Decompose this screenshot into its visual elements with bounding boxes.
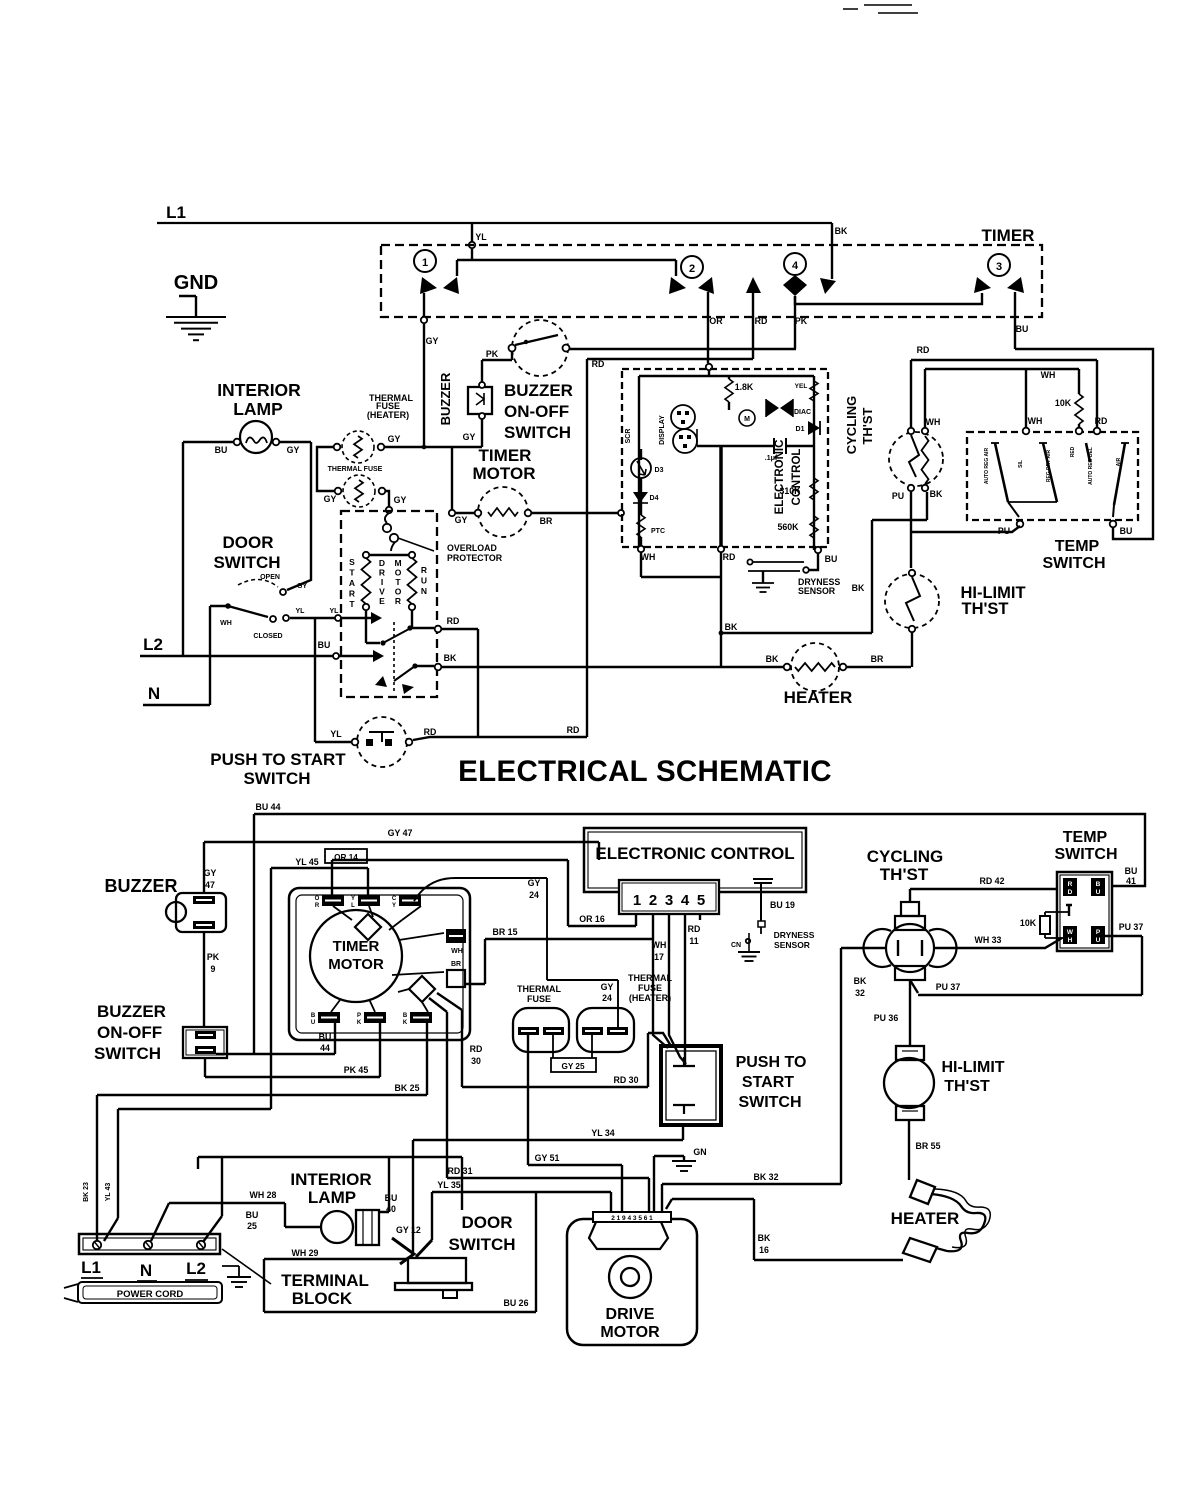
svg-text:MOTOR: MOTOR <box>473 464 536 483</box>
svg-text:O: O <box>315 896 320 902</box>
svg-text:K: K <box>357 1020 362 1026</box>
svg-text:BU 26: BU 26 <box>504 1298 529 1308</box>
svg-text:BK: BK <box>758 1233 771 1243</box>
svg-text:N: N <box>140 1261 152 1280</box>
svg-text:U: U <box>1096 889 1101 896</box>
svg-text:32: 32 <box>855 988 865 998</box>
svg-text:SWITCH: SWITCH <box>738 1094 801 1111</box>
svg-text:4: 4 <box>681 892 690 909</box>
svg-text:RD 42: RD 42 <box>980 876 1005 886</box>
svg-text:PU 37: PU 37 <box>936 982 961 992</box>
svg-text:R: R <box>395 596 401 606</box>
svg-text:PU 37: PU 37 <box>1119 922 1144 932</box>
svg-text:WH: WH <box>641 552 656 562</box>
svg-text:17: 17 <box>654 952 664 962</box>
svg-text:2: 2 <box>689 263 695 275</box>
svg-text:BU: BU <box>1125 866 1138 876</box>
svg-text:BK: BK <box>766 654 779 664</box>
svg-text:(HEATER): (HEATER) <box>367 410 409 420</box>
svg-text:CONTROL: CONTROL <box>791 449 803 506</box>
svg-text:FUSE: FUSE <box>638 983 662 993</box>
svg-text:BUZZER: BUZZER <box>97 1002 166 1021</box>
svg-text:BR 15: BR 15 <box>493 927 518 937</box>
svg-text:R: R <box>379 568 385 578</box>
svg-text:R: R <box>1068 881 1073 888</box>
svg-text:4: 4 <box>792 260 799 272</box>
svg-text:THERMAL FUSE: THERMAL FUSE <box>328 466 383 473</box>
svg-text:AUTO REG AIR: AUTO REG AIR <box>984 448 990 485</box>
svg-text:YL: YL <box>330 608 340 615</box>
svg-text:SWITCH: SWITCH <box>243 769 310 788</box>
svg-text:DRIVE: DRIVE <box>606 1306 655 1323</box>
svg-text:TIMER: TIMER <box>982 226 1035 245</box>
svg-text:GY: GY <box>388 434 401 444</box>
svg-text:A: A <box>349 578 355 588</box>
svg-text:SIL: SIL <box>1018 460 1024 468</box>
svg-text:P: P <box>357 1013 361 1019</box>
svg-text:P: P <box>1096 929 1101 936</box>
svg-text:L: L <box>351 903 355 909</box>
svg-text:HEATER: HEATER <box>891 1209 960 1228</box>
svg-text:D: D <box>379 558 385 568</box>
svg-text:TIMER: TIMER <box>333 938 380 955</box>
svg-text:BU: BU <box>246 1210 259 1220</box>
svg-text:TH'ST: TH'ST <box>880 865 929 884</box>
svg-text:PK: PK <box>207 952 220 962</box>
svg-text:BR: BR <box>871 654 884 664</box>
svg-text:OR: OR <box>709 316 723 326</box>
svg-text:WH: WH <box>926 417 941 427</box>
svg-text:POWER CORD: POWER CORD <box>117 1289 184 1300</box>
svg-text:RD: RD <box>723 552 736 562</box>
svg-text:PK 45: PK 45 <box>344 1065 369 1075</box>
svg-text:GY: GY <box>204 868 217 878</box>
svg-text:BUZZER: BUZZER <box>438 372 453 425</box>
svg-text:11: 11 <box>689 936 698 946</box>
svg-text:GND: GND <box>174 272 218 294</box>
svg-text:DOOR: DOOR <box>223 533 274 552</box>
svg-text:O: O <box>395 568 402 578</box>
svg-text:TIMER: TIMER <box>479 446 532 465</box>
svg-text:D1: D1 <box>796 426 805 433</box>
svg-text:BU: BU <box>1120 526 1133 536</box>
svg-text:R: R <box>421 565 427 575</box>
svg-text:BU 19: BU 19 <box>770 900 795 910</box>
svg-text:T: T <box>349 568 355 578</box>
svg-text:Y: Y <box>392 903 396 909</box>
svg-text:MOTOR: MOTOR <box>600 1324 660 1341</box>
svg-text:SWITCH: SWITCH <box>448 1235 515 1254</box>
svg-text:CLOSED: CLOSED <box>253 633 282 640</box>
svg-text:PUSH TO: PUSH TO <box>736 1054 807 1071</box>
svg-text:WH 29: WH 29 <box>292 1248 319 1258</box>
svg-text:44: 44 <box>320 1043 330 1053</box>
svg-text:560K: 560K <box>777 522 799 532</box>
svg-text:BK 32: BK 32 <box>754 1172 779 1182</box>
svg-text:10K: 10K <box>1020 918 1037 928</box>
svg-text:SWITCH: SWITCH <box>504 423 571 442</box>
svg-text:PU: PU <box>892 491 904 501</box>
svg-text:ELECTRONIC CONTROL: ELECTRONIC CONTROL <box>595 844 794 863</box>
svg-text:BK 25: BK 25 <box>395 1083 420 1093</box>
svg-text:SENSOR: SENSOR <box>798 586 836 596</box>
svg-text:D3: D3 <box>655 467 664 474</box>
svg-text:CYCLING: CYCLING <box>867 847 944 866</box>
svg-text:1: 1 <box>422 257 428 269</box>
svg-text:25: 25 <box>247 1221 257 1231</box>
svg-text:YL 35: YL 35 <box>437 1180 460 1190</box>
svg-text:PTC: PTC <box>651 528 665 535</box>
svg-text:T: T <box>349 599 355 609</box>
svg-text:TH'ST: TH'ST <box>961 600 1008 618</box>
svg-text:WH 28: WH 28 <box>250 1190 277 1200</box>
svg-text:SENSOR: SENSOR <box>774 940 810 950</box>
svg-text:24: 24 <box>529 890 539 900</box>
svg-text:PROTECTOR: PROTECTOR <box>447 553 503 563</box>
svg-text:RD 31: RD 31 <box>448 1166 473 1176</box>
svg-text:INTERIOR: INTERIOR <box>290 1170 371 1189</box>
svg-text:BR: BR <box>451 961 461 968</box>
svg-text:SWITCH: SWITCH <box>94 1044 161 1063</box>
svg-text:TEMP: TEMP <box>1055 538 1100 555</box>
svg-text:TERMINAL: TERMINAL <box>281 1271 369 1290</box>
svg-text:BK: BK <box>930 489 943 499</box>
svg-text:L2: L2 <box>143 635 163 654</box>
svg-text:E: E <box>379 596 385 606</box>
svg-text:WH: WH <box>1041 370 1056 380</box>
svg-text:BU: BU <box>215 445 228 455</box>
svg-text:2 1 9 4 3 5 6 1: 2 1 9 4 3 5 6 1 <box>611 1215 653 1222</box>
svg-text:BU: BU <box>1016 324 1029 334</box>
svg-text:GY: GY <box>426 336 439 346</box>
svg-text:GY 25: GY 25 <box>561 1062 585 1071</box>
svg-text:41: 41 <box>1126 876 1136 886</box>
svg-text:WH 33: WH 33 <box>975 935 1002 945</box>
svg-text:M: M <box>744 416 750 423</box>
svg-text:BUZZER: BUZZER <box>105 876 178 896</box>
svg-text:HI-LIMIT: HI-LIMIT <box>941 1059 1004 1076</box>
svg-text:SWITCH: SWITCH <box>213 553 280 572</box>
svg-text:RD: RD <box>755 316 768 326</box>
svg-text:L1: L1 <box>81 1258 101 1277</box>
svg-text:GN: GN <box>693 1147 706 1157</box>
svg-text:.1μf: .1μf <box>765 455 778 462</box>
svg-text:H: H <box>1068 937 1073 944</box>
svg-text:YL 43: YL 43 <box>105 1183 112 1202</box>
svg-text:OPEN: OPEN <box>260 574 280 581</box>
svg-text:SWITCH: SWITCH <box>1054 846 1117 863</box>
svg-text:DOOR: DOOR <box>462 1213 513 1232</box>
svg-text:47: 47 <box>205 880 215 890</box>
svg-text:RD: RD <box>424 727 437 737</box>
svg-text:3: 3 <box>996 261 1002 273</box>
svg-text:GY: GY <box>394 495 407 505</box>
svg-text:GY 12: GY 12 <box>396 1225 421 1235</box>
svg-text:BR: BR <box>540 516 553 526</box>
svg-text:C: C <box>392 896 397 902</box>
svg-text:GY: GY <box>455 515 468 525</box>
svg-text:D4: D4 <box>650 495 659 502</box>
svg-text:L2: L2 <box>186 1259 206 1278</box>
svg-text:1: 1 <box>633 892 641 909</box>
svg-text:MOTOR: MOTOR <box>328 956 384 973</box>
svg-text:BK: BK <box>854 976 867 986</box>
svg-text:O: O <box>395 587 402 597</box>
svg-text:AUTO REG DEL: AUTO REG DEL <box>1088 447 1094 485</box>
svg-text:U: U <box>1096 937 1101 944</box>
svg-text:SCR: SCR <box>625 429 632 444</box>
svg-text:RD: RD <box>1095 416 1108 426</box>
svg-text:REG DRY AIR: REG DRY AIR <box>1046 449 1052 482</box>
svg-text:16: 16 <box>759 1245 769 1255</box>
svg-text:GY: GY <box>297 583 307 590</box>
svg-text:I: I <box>381 577 383 587</box>
svg-text:TH'ST: TH'ST <box>860 407 875 444</box>
svg-text:BK: BK <box>725 622 738 632</box>
svg-text:R: R <box>315 903 320 909</box>
svg-text:DRYNESS: DRYNESS <box>774 930 815 940</box>
svg-text:BUZZER: BUZZER <box>504 381 573 400</box>
svg-text:T: T <box>395 577 401 587</box>
svg-text:YL: YL <box>475 232 487 242</box>
svg-text:W: W <box>1067 929 1074 936</box>
svg-text:GY: GY <box>528 878 541 888</box>
svg-text:WH: WH <box>1028 416 1043 426</box>
svg-text:PK: PK <box>486 349 499 359</box>
svg-text:CN: CN <box>731 942 741 949</box>
svg-text:YL 45: YL 45 <box>295 857 318 867</box>
svg-text:D: D <box>1068 889 1073 896</box>
svg-text:B: B <box>403 1013 408 1019</box>
svg-text:24: 24 <box>602 993 612 1003</box>
svg-text:RD: RD <box>567 725 580 735</box>
svg-text:BU 44: BU 44 <box>256 802 281 812</box>
svg-text:9: 9 <box>211 964 216 974</box>
svg-text:BU: BU <box>385 1193 398 1203</box>
svg-text:YL 34: YL 34 <box>591 1128 614 1138</box>
svg-text:3: 3 <box>665 892 673 909</box>
svg-text:M: M <box>394 558 401 568</box>
svg-text:GY: GY <box>324 494 337 504</box>
svg-text:2: 2 <box>649 892 657 909</box>
svg-text:310K: 310K <box>779 486 801 496</box>
svg-text:R: R <box>349 589 355 599</box>
svg-text:RD: RD <box>592 359 605 369</box>
svg-text:CYCLING: CYCLING <box>844 396 859 455</box>
svg-text:RD: RD <box>688 924 701 934</box>
svg-text:BLOCK: BLOCK <box>292 1289 353 1308</box>
svg-text:K: K <box>403 1020 408 1026</box>
svg-text:OR 16: OR 16 <box>579 914 605 924</box>
svg-text:GY: GY <box>463 432 476 442</box>
svg-text:RD: RD <box>917 345 930 355</box>
svg-text:BK 23: BK 23 <box>83 1182 90 1202</box>
svg-text:OVERLOAD: OVERLOAD <box>447 543 497 553</box>
svg-text:YEL: YEL <box>795 383 808 390</box>
svg-text:U: U <box>311 1020 315 1026</box>
svg-text:RD: RD <box>447 616 460 626</box>
svg-text:5: 5 <box>697 892 705 909</box>
svg-text:START: START <box>742 1074 794 1091</box>
svg-text:TH'ST: TH'ST <box>944 1078 990 1095</box>
svg-text:ON-OFF: ON-OFF <box>504 402 569 421</box>
svg-text:30: 30 <box>471 1056 481 1066</box>
svg-text:TEMP: TEMP <box>1063 829 1108 846</box>
svg-text:GY: GY <box>601 982 614 992</box>
svg-text:BK: BK <box>852 583 865 593</box>
svg-text:SWITCH: SWITCH <box>1042 555 1105 572</box>
svg-text:(HEATER): (HEATER) <box>629 993 671 1003</box>
svg-text:HEATER: HEATER <box>784 688 853 707</box>
svg-text:1.8K: 1.8K <box>735 382 754 392</box>
svg-text:THERMAL: THERMAL <box>628 973 672 983</box>
svg-text:RD 30: RD 30 <box>614 1075 639 1085</box>
svg-text:INTERIOR: INTERIOR <box>217 380 301 400</box>
svg-text:GY 51: GY 51 <box>535 1153 560 1163</box>
svg-text:YL: YL <box>330 729 342 739</box>
svg-text:GY 47: GY 47 <box>388 828 413 838</box>
svg-text:AIR: AIR <box>1116 457 1122 466</box>
svg-text:ON-OFF: ON-OFF <box>97 1023 162 1042</box>
svg-text:PU 36: PU 36 <box>874 1013 899 1023</box>
svg-text:BR 55: BR 55 <box>916 1141 941 1151</box>
svg-text:RED: RED <box>1070 446 1076 457</box>
svg-text:B: B <box>311 1013 316 1019</box>
svg-text:BU: BU <box>318 640 331 650</box>
svg-text:PK: PK <box>795 316 808 326</box>
svg-text:YL: YL <box>296 608 306 615</box>
svg-text:BK: BK <box>444 653 457 663</box>
svg-text:PUSH TO START: PUSH TO START <box>210 750 346 769</box>
svg-text:WH: WH <box>451 948 463 955</box>
svg-text:L1: L1 <box>166 203 186 222</box>
svg-text:B: B <box>1096 881 1101 888</box>
svg-text:GY: GY <box>287 445 300 455</box>
svg-text:THERMAL: THERMAL <box>517 984 561 994</box>
svg-text:U: U <box>421 576 427 586</box>
svg-text:10K: 10K <box>1055 398 1072 408</box>
svg-text:WH: WH <box>652 940 667 950</box>
svg-text:ELECTRICAL SCHEMATIC: ELECTRICAL SCHEMATIC <box>458 755 832 788</box>
svg-text:BK: BK <box>835 226 848 236</box>
svg-text:LAMP: LAMP <box>308 1188 356 1207</box>
svg-text:RD: RD <box>470 1044 483 1054</box>
svg-text:ELECTRONIC: ELECTRONIC <box>774 440 786 515</box>
svg-text:V: V <box>379 587 385 597</box>
svg-text:Y: Y <box>351 896 355 902</box>
svg-text:N: N <box>148 684 160 703</box>
svg-text:FUSE: FUSE <box>527 994 551 1004</box>
svg-text:BU: BU <box>825 554 838 564</box>
svg-text:S: S <box>349 557 355 567</box>
svg-text:WH: WH <box>220 620 232 627</box>
svg-text:N: N <box>421 586 427 596</box>
svg-text:DISPLAY: DISPLAY <box>659 415 666 445</box>
svg-text:LAMP: LAMP <box>233 399 283 419</box>
svg-text:DIAC: DIAC <box>794 409 811 416</box>
